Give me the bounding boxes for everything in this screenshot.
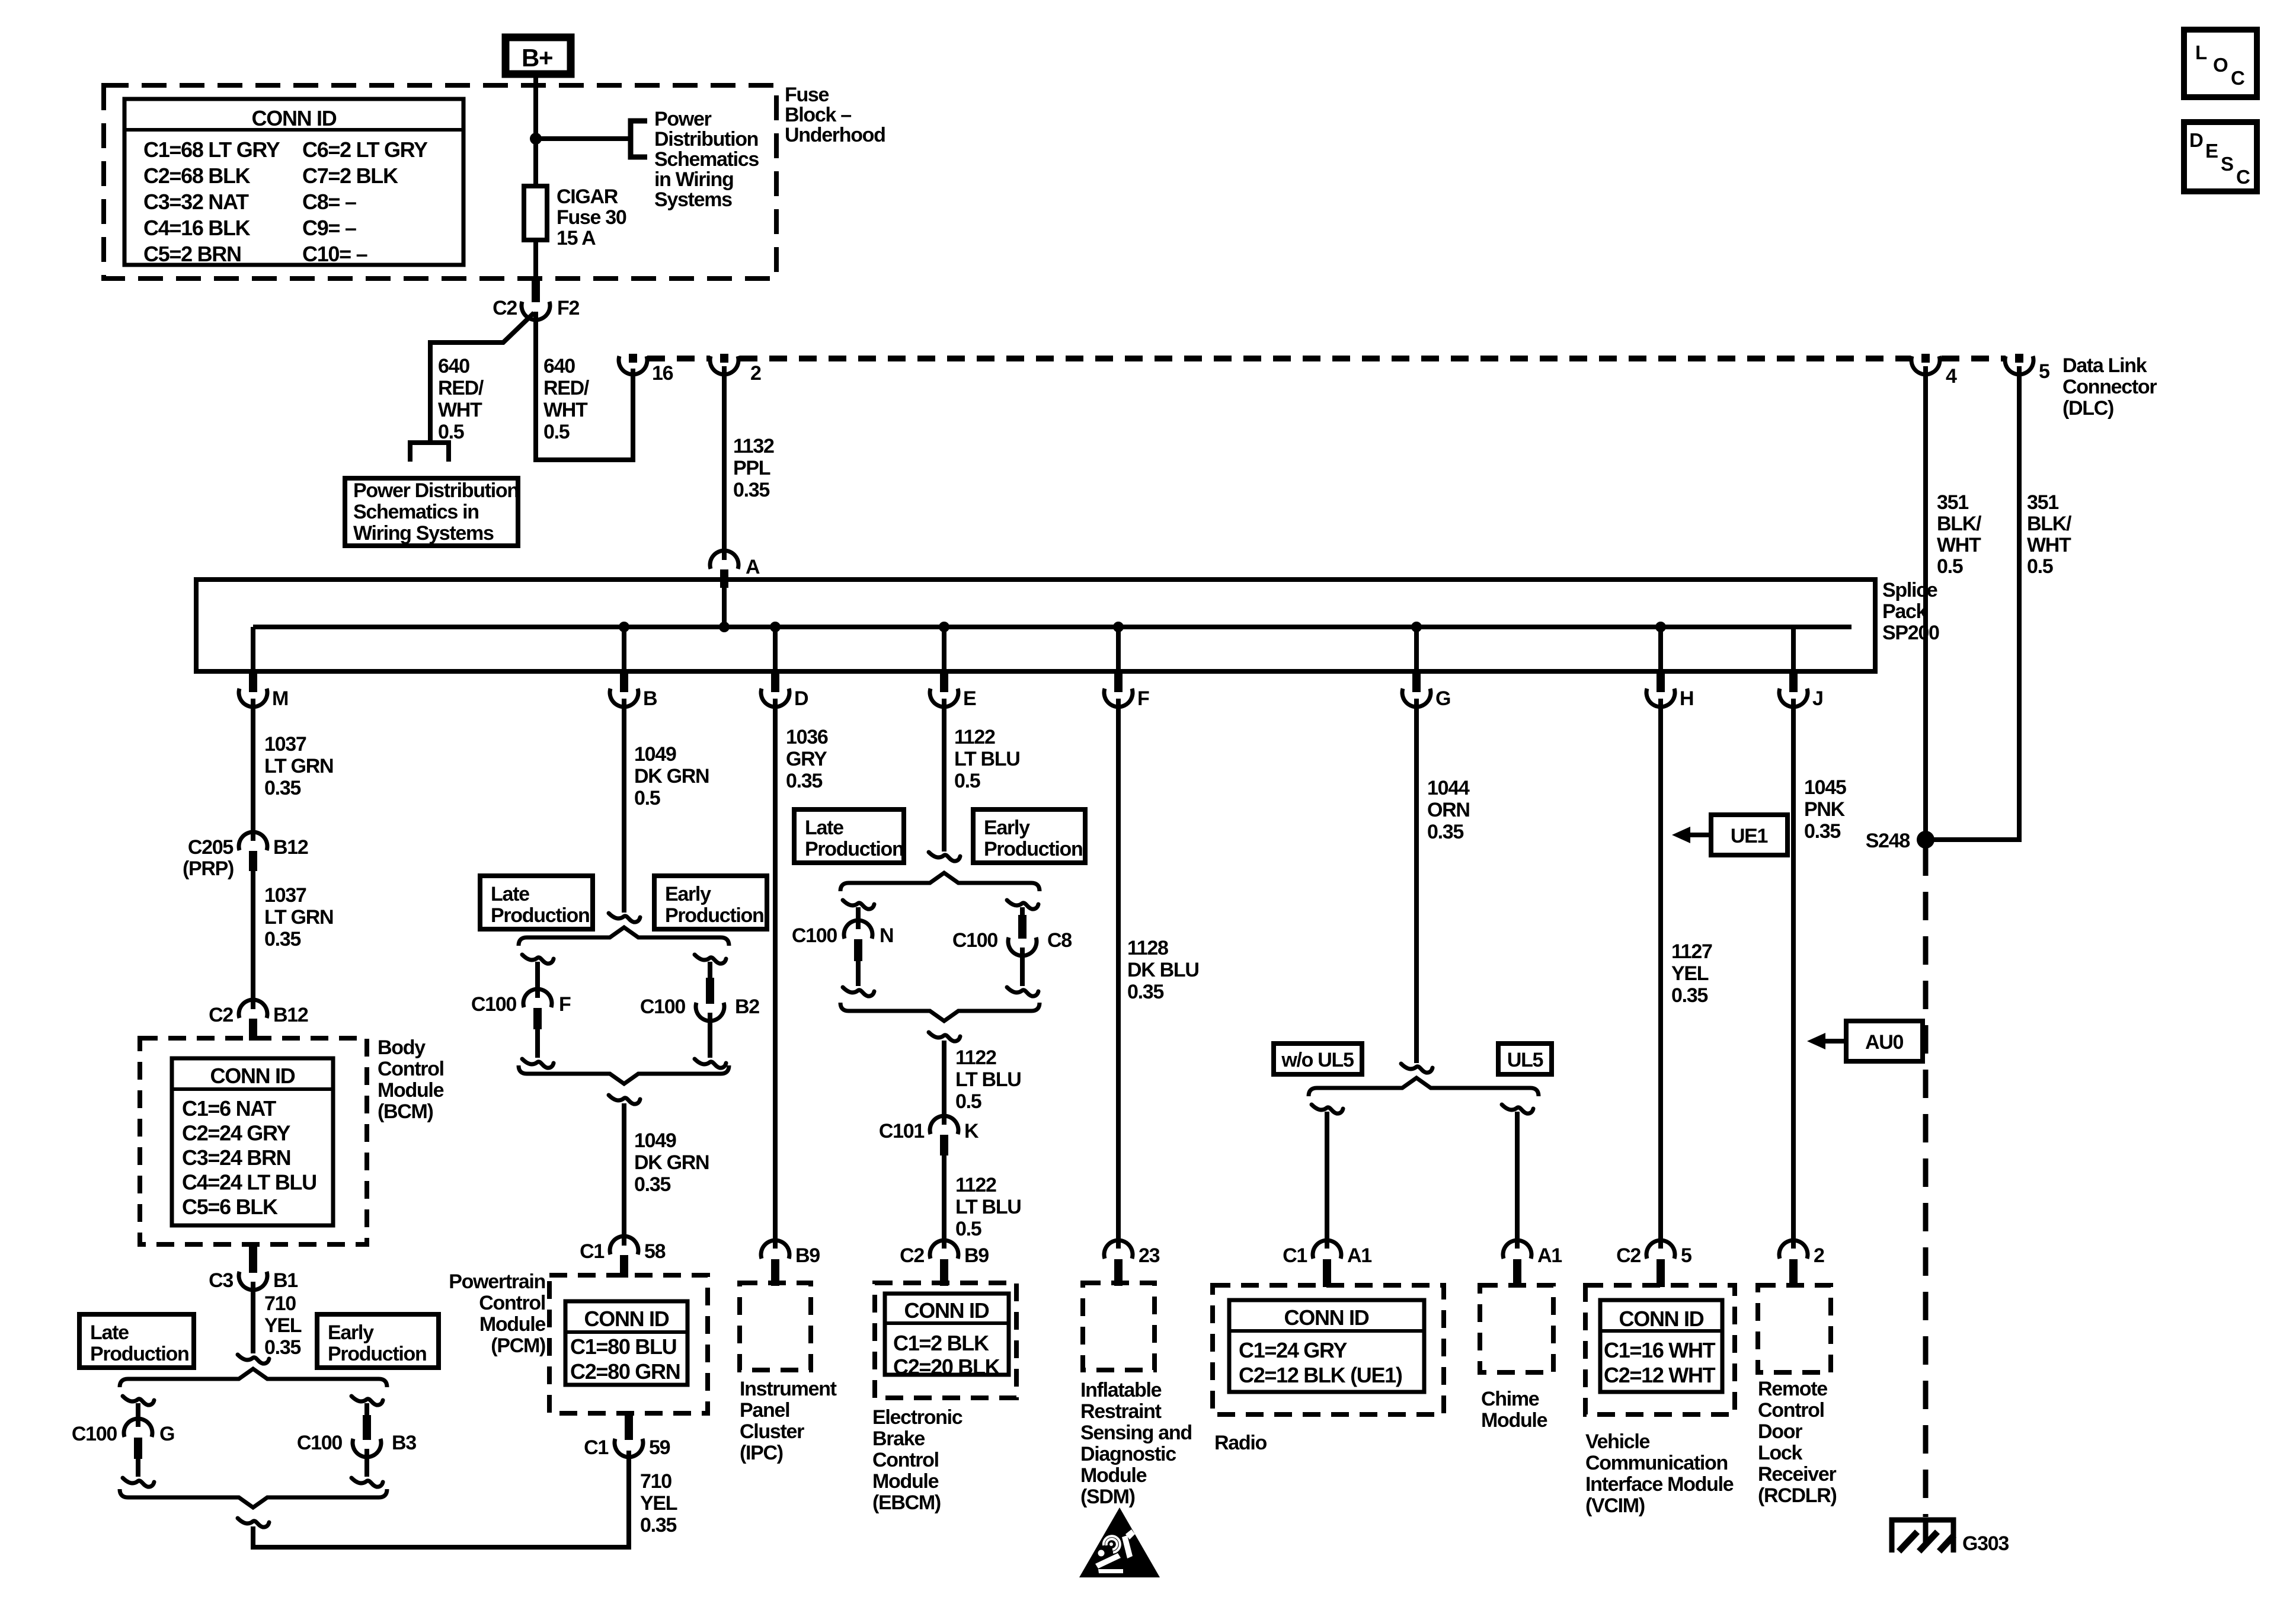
svg-text:LT BLU: LT BLU [954,748,1020,770]
svg-text:Production: Production [984,838,1082,860]
junction node F on bus [1113,622,1124,632]
svg-text:ORN: ORN [1427,799,1470,821]
svg-text:C1=68 LT GRY: C1=68 LT GRY [143,137,280,162]
svg-text:BLK/: BLK/ [2027,513,2072,535]
junction node H on bus [1655,622,1666,632]
svg-text:Underhood: Underhood [785,124,885,146]
svg-text:351: 351 [2027,491,2058,514]
label 640 RED/WHT left [438,355,484,443]
svg-text:C100: C100 [792,924,837,947]
label 1128 DK BLU [1127,937,1199,1003]
svg-text:B9: B9 [964,1244,989,1267]
box Late Production left [79,1314,194,1368]
connector C3 B1 [209,1243,298,1292]
wire 1036 GRY [773,699,778,1249]
wire to chime [1515,1112,1520,1249]
svg-text:B12: B12 [273,836,308,859]
label 1044 ORN [1427,777,1470,843]
svg-text:C5=2 BRN: C5=2 BRN [143,242,241,266]
label 710 YEL lower [640,1470,677,1537]
svg-text:H: H [1680,687,1693,710]
wire to C100 N [856,907,861,929]
junction node E on bus [939,622,949,632]
label 1122 LT BLU mid [955,1046,1021,1113]
splice pack bus [253,625,1851,629]
split brace B [519,927,729,946]
break squiggle B merge [609,1095,640,1104]
svg-text:Restraint: Restraint [1080,1400,1162,1423]
hook top C100 B2 [695,955,726,964]
junction node B on bus [619,622,629,632]
wire B+ to fuse [533,71,538,188]
svg-text:C100: C100 [471,993,516,1016]
svg-text:1122: 1122 [955,1174,996,1196]
connector DLC pin 2 [710,354,761,385]
hook bottom C100 B3 [351,1478,383,1487]
svg-text:Early: Early [984,817,1030,839]
svg-text:0.35: 0.35 [640,1514,676,1537]
svg-text:C5=6 BLK: C5=6 BLK [182,1195,278,1219]
wire 1122 LT BLU upper [942,699,946,852]
svg-text:C1: C1 [584,1436,608,1459]
svg-text:C3=32 NAT: C3=32 NAT [143,190,249,214]
svg-text:Module: Module [479,1313,546,1336]
svg-text:Data Link: Data Link [2062,354,2147,377]
svg-text:351: 351 [1937,491,1968,514]
module Chime box [1480,1285,1553,1372]
svg-text:Powertrain: Powertrain [449,1270,545,1293]
label 1049 DK GRN lower [634,1129,709,1196]
splice pack SP200 box [196,580,1875,671]
module EBCM box [875,1283,1016,1398]
conn id table BCM [172,1058,333,1225]
svg-text:15 A: 15 A [557,227,596,249]
wire to C100 G [136,1403,140,1427]
svg-text:Power: Power [654,108,712,130]
label 351 BLK/WHT left [1937,491,1982,578]
hook top chime branch [1502,1105,1533,1113]
svg-text:DK BLU: DK BLU [1127,959,1199,981]
svg-text:1044: 1044 [1427,777,1470,799]
svg-text:C1=80 BLU: C1=80 BLU [570,1334,676,1359]
conn id table fuse block [124,99,463,266]
svg-text:C3: C3 [209,1269,233,1292]
connector DLC pin 5 [2005,354,2049,383]
svg-text:E: E [2205,140,2218,162]
svg-text:Body: Body [378,1036,426,1059]
conn id table VCIM [1600,1300,1722,1392]
svg-text:C1=16 WHT: C1=16 WHT [1604,1338,1716,1362]
label Electronic Brake Control Module EBCM [872,1406,962,1514]
svg-text:1037: 1037 [264,733,306,756]
wire below C100 B3 [364,1449,369,1477]
svg-text:C2=68 BLK: C2=68 BLK [143,164,251,188]
hook bottom C100 N [843,987,874,996]
svg-text:N: N [880,924,893,947]
svg-text:LT GRN: LT GRN [264,906,333,929]
svg-text:D: D [2189,129,2203,151]
svg-text:C6=2 LT GRY: C6=2 LT GRY [302,137,428,162]
svg-text:Sensing and: Sensing and [1080,1422,1192,1444]
break squiggle E split [929,852,960,861]
wire 1049 DK GRN upper [622,699,626,913]
svg-text:RED/: RED/ [543,377,590,399]
svg-text:C205: C205 [188,836,233,859]
svg-text:C9= –: C9= – [302,216,356,240]
svg-text:2: 2 [750,362,761,385]
svg-text:59: 59 [649,1436,670,1459]
svg-text:C2=12 BLK (UE1): C2=12 BLK (UE1) [1239,1363,1402,1387]
connector DLC pin 4 [1911,354,1957,388]
svg-text:710: 710 [264,1292,296,1315]
splice output connector D [761,627,808,710]
label Fuse Block Underhood [785,84,885,146]
svg-text:C2=80 GRN: C2=80 GRN [570,1359,680,1384]
svg-text:Late: Late [90,1321,129,1344]
svg-text:640: 640 [438,355,469,377]
svg-text:Control: Control [378,1058,444,1080]
wire to radio [1325,1112,1329,1249]
svg-text:0.5: 0.5 [634,787,660,809]
svg-text:(PRP): (PRP) [183,857,234,880]
svg-text:C1: C1 [1283,1244,1307,1267]
svg-text:C2: C2 [900,1244,924,1267]
svg-text:LT BLU: LT BLU [955,1196,1021,1218]
connector A1 into Chime [1503,1240,1562,1287]
hook top C100 N [843,900,874,909]
label 640 RED/WHT right [543,355,590,443]
svg-text:(IPC): (IPC) [740,1442,783,1464]
svg-text:A1: A1 [1537,1244,1562,1267]
module RCDLR box [1758,1285,1831,1372]
junction node A on bus [719,622,730,632]
label PRP [183,857,234,880]
svg-text:CIGAR: CIGAR [557,185,618,208]
svg-text:0.35: 0.35 [1127,981,1163,1003]
wire 351 BLK/WHT pin 4 [1923,366,1928,840]
svg-text:Systems: Systems [654,188,732,211]
svg-text:0.5: 0.5 [954,770,980,792]
label Splice Pack SP200 [1882,579,1939,644]
svg-text:C2: C2 [209,1004,233,1026]
connector C100 B3 [297,1415,416,1457]
svg-text:Interface Module: Interface Module [1585,1473,1734,1496]
svg-text:5: 5 [2039,360,2049,383]
svg-text:in Wiring: in Wiring [654,168,733,191]
svg-text:1132: 1132 [733,435,774,457]
svg-text:Module: Module [1481,1409,1547,1432]
svg-text:C100: C100 [297,1432,342,1454]
svg-text:(DLC): (DLC) [2062,397,2113,420]
legend box LOC [2184,30,2257,97]
wire 640 RED/WHT left [430,313,534,441]
svg-text:CONN ID: CONN ID [584,1307,669,1331]
connector C100 G [72,1419,174,1459]
connector C2 B9 into EBCM [900,1240,989,1286]
break squiggle M split [238,1355,269,1363]
svg-text:(VCIM): (VCIM) [1585,1494,1645,1517]
svg-text:K: K [964,1120,979,1142]
svg-text:S: S [2221,153,2233,175]
svg-text:F2: F2 [557,297,579,319]
merge brace M [120,1489,387,1507]
svg-text:L: L [2195,41,2207,63]
break squiggle B split [609,913,640,922]
svg-text:G: G [1435,687,1450,710]
legend box DESC [2184,122,2257,191]
break squiggle M merge [238,1518,269,1527]
splice output connector F [1104,627,1149,710]
svg-text:C8= –: C8= – [302,190,356,214]
connector C1 59 from PCM [584,1411,670,1459]
wire 1132 PPL [722,366,727,560]
wire 1049 DK GRN lower [622,1103,626,1246]
svg-text:0.35: 0.35 [264,1336,300,1359]
connector C100 C8 [952,915,1072,956]
label 1049 DK GRN upper [634,743,709,809]
hook top C100 B3 [351,1396,383,1405]
svg-text:Production: Production [491,904,589,927]
connector C1 58 into PCM [580,1236,665,1278]
svg-text:Instrument: Instrument [740,1378,837,1400]
junction node D on bus [770,622,781,632]
svg-text:Late: Late [805,817,843,839]
fuse CIGAR 15A [524,186,547,280]
label 351 BLK/WHT right [2027,491,2072,578]
svg-text:Control: Control [1758,1399,1824,1422]
junction node on B+ wire [530,133,542,145]
svg-text:C100: C100 [640,996,685,1018]
label Radio [1214,1432,1267,1454]
svg-text:0.35: 0.35 [634,1173,670,1196]
splice output connector G [1402,627,1450,710]
connector A splice input [710,550,760,588]
svg-text:UE1: UE1 [1731,825,1768,847]
label Powertrain Control Module PCM [449,1270,545,1357]
hook bottom C100 F [522,1059,554,1068]
hook top radio branch [1312,1105,1343,1113]
wire to C100 C8 [1020,907,1025,916]
svg-text:WHT: WHT [1937,534,1981,556]
box Late Production E [794,809,904,863]
svg-text:Panel: Panel [740,1399,789,1422]
connector C101 K [879,1116,979,1156]
wire below C100 B2 [708,1013,712,1058]
svg-text:0.35: 0.35 [1671,984,1707,1007]
svg-text:Late: Late [491,883,529,905]
svg-text:DK GRN: DK GRN [634,1151,709,1174]
svg-text:Early: Early [665,883,711,905]
off-page pointer bracket [631,121,647,157]
svg-text:Schematics: Schematics [654,148,759,171]
ground G303 [1892,1520,2009,1555]
svg-text:B9: B9 [795,1244,820,1267]
svg-text:1049: 1049 [634,743,676,766]
wire 710 YEL from BCM [251,1282,255,1353]
svg-text:Production: Production [665,904,763,927]
svg-text:C1=2 BLK: C1=2 BLK [893,1331,989,1355]
svg-text:DK GRN: DK GRN [634,765,709,788]
svg-text:(RCDLR): (RCDLR) [1758,1484,1837,1507]
svg-text:0.5: 0.5 [2027,555,2053,578]
wire 1128 DK BLU [1116,699,1121,1249]
svg-text:640: 640 [543,355,575,377]
svg-text:Module: Module [1080,1464,1147,1487]
splice output connector J [1779,627,1823,710]
svg-text:58: 58 [644,1240,666,1263]
svg-text:E: E [963,687,976,710]
hook top C100 G [123,1396,154,1405]
connector C2 B12 into BCM [209,1000,308,1041]
svg-text:LT GRN: LT GRN [264,755,333,777]
split brace G [1309,1078,1539,1096]
label 1122 LT BLU upper [954,726,1020,792]
svg-text:0.35: 0.35 [733,479,769,501]
svg-text:WHT: WHT [543,399,588,421]
svg-text:0.5: 0.5 [438,421,464,443]
svg-text:SP200: SP200 [1882,622,1939,644]
label 1127 YEL [1671,940,1712,1007]
svg-text:w/o UL5: w/o UL5 [1281,1049,1354,1071]
svg-text:C4=24 LT BLU: C4=24 LT BLU [182,1170,316,1195]
svg-text:UL5: UL5 [1507,1049,1543,1071]
option box AU0 [1846,1021,1923,1061]
power symbol B+ [506,37,571,74]
connector C100 F [471,989,571,1029]
wire 1037 LT GRN upper [251,699,255,841]
svg-text:0.5: 0.5 [955,1218,981,1240]
fuse block underhood box [104,85,776,279]
svg-text:C3=24 BRN: C3=24 BRN [182,1145,290,1170]
wire below C100 N [856,960,861,986]
DLC bus dashed line [647,356,2006,361]
svg-text:Diagnostic: Diagnostic [1080,1443,1176,1465]
svg-text:B+: B+ [522,44,552,72]
svg-text:CONN ID: CONN ID [1619,1307,1704,1331]
label 1037 LT GRN lower [264,884,333,950]
svg-text:CONN ID: CONN ID [1284,1305,1369,1330]
svg-text:C1=6 NAT: C1=6 NAT [182,1096,276,1121]
svg-text:C101: C101 [879,1120,924,1142]
module IPC box [740,1283,811,1370]
svg-text:YEL: YEL [1671,962,1709,985]
hook top C100 F [522,955,554,964]
label Inflatable Restraint SDM [1080,1379,1192,1508]
hook bottom C100 C8 [1007,987,1038,996]
svg-text:Power Distribution: Power Distribution [353,479,519,502]
svg-text:O: O [2213,54,2228,76]
svg-text:GRY: GRY [786,748,827,770]
split brace M [120,1369,387,1387]
svg-text:Production: Production [90,1343,188,1365]
svg-text:Early: Early [328,1321,374,1344]
svg-text:1036: 1036 [786,726,828,748]
svg-text:0.35: 0.35 [786,770,822,792]
svg-text:Distribution: Distribution [654,128,758,151]
wire 640 RED/WHT right [536,312,633,460]
connector C1 A1 into Radio [1283,1240,1371,1287]
svg-text:0.35: 0.35 [1427,821,1463,843]
svg-text:AU0: AU0 [1865,1031,1904,1054]
label 1132 PPL [733,435,774,501]
note Power Distribution Schematics [654,108,759,211]
svg-text:1127: 1127 [1671,940,1712,963]
svg-text:Connector: Connector [2062,376,2157,398]
svg-text:1122: 1122 [954,726,995,748]
wire to C100 F [535,962,540,998]
svg-text:0.35: 0.35 [264,777,300,799]
conn id table EBCM [885,1294,1009,1379]
svg-text:Inflatable: Inflatable [1080,1379,1162,1401]
box Early Production E [973,809,1085,863]
svg-text:CONN ID: CONN ID [252,106,337,130]
svg-text:C10= –: C10= – [302,242,367,266]
merge brace E [840,1003,1040,1021]
svg-text:B12: B12 [273,1004,308,1026]
svg-text:Remote: Remote [1758,1378,1827,1400]
svg-text:0.5: 0.5 [543,421,570,443]
label 710 YEL upper [264,1292,302,1359]
svg-text:B3: B3 [392,1432,416,1454]
connector C2 5 into VCIM [1616,1240,1691,1287]
wire below C100 C8 [1020,948,1025,986]
svg-text:Module: Module [872,1470,939,1493]
box Late Production B [480,876,593,929]
svg-text:Control: Control [872,1449,939,1471]
svg-text:S248: S248 [1866,830,1910,852]
module SDM box [1083,1283,1155,1370]
box Early Production left [317,1314,439,1368]
svg-text:1122: 1122 [955,1046,996,1069]
merge brace B [519,1065,729,1084]
splice output connector E [930,627,976,710]
svg-text:Pack: Pack [1882,600,1927,623]
connector C100 N [792,920,893,961]
label CIGAR Fuse [557,185,626,249]
svg-text:D: D [794,687,808,710]
svg-text:C100: C100 [72,1423,117,1445]
svg-text:A1: A1 [1347,1244,1371,1267]
svg-text:B2: B2 [735,996,759,1018]
break squiggle E merge [929,1032,960,1041]
label Data Link Connector [2062,354,2157,420]
svg-text:G: G [159,1423,174,1445]
box Early Production B [654,876,767,929]
svg-text:Lock: Lock [1758,1442,1803,1464]
svg-text:1037: 1037 [264,884,306,907]
svg-text:PPL: PPL [733,457,770,479]
svg-text:C8: C8 [1047,929,1072,952]
svg-text:1045: 1045 [1804,776,1846,799]
wire 351 BLK/WHT pin 5 [1926,366,2019,840]
wire A to bus [722,587,727,627]
svg-text:C7=2 BLK: C7=2 BLK [302,164,398,188]
svg-text:G303: G303 [1962,1532,2009,1555]
svg-text:Radio: Radio [1214,1432,1267,1454]
svg-text:F: F [1137,687,1149,710]
wire 1037 LT GRN lower [251,870,255,1009]
svg-text:C2: C2 [1616,1244,1641,1267]
label 1036 GRY [786,726,828,792]
svg-text:(PCM): (PCM) [491,1334,545,1357]
module PCM box [549,1275,708,1413]
arrow UE1 [1672,827,1712,843]
svg-text:Production: Production [805,838,903,860]
splice output connector M [239,627,288,710]
svg-text:Fuse: Fuse [785,84,829,106]
connector DLC pin 16 [619,354,673,385]
label 1037 LT GRN upper [264,733,333,799]
